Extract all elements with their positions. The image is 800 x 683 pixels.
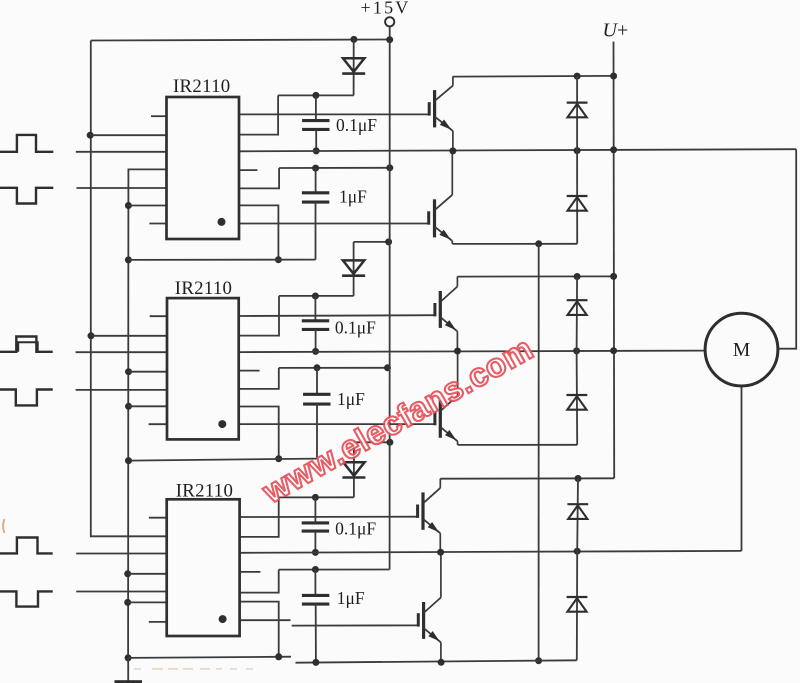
capacitor C1 stem bottom [315, 129, 317, 151]
svg-text:0.1μF: 0.1μF [335, 318, 376, 338]
wire input HIN-B to chip2 [76, 351, 167, 353]
wire emitter line A [452, 243, 577, 245]
junction dot phase B Q junction [454, 348, 461, 355]
capacitor C2 stem top [315, 168, 317, 193]
junction dot collector A rail [610, 73, 617, 80]
ground [115, 658, 143, 683]
svg-text:+15V: +15V [361, 0, 411, 18]
transistor Q4 [435, 351, 458, 445]
junction dot C5 top [312, 494, 319, 501]
op-amp U1 IR2110 chip1 [167, 97, 240, 239]
chip3 pin marker dot [219, 615, 227, 623]
junction dot COM bus chip3 pin4 [124, 570, 131, 577]
wire chip3 LIN-drive to Q6 gate part2 [292, 624, 419, 626]
junction dot phase C diode column [574, 548, 581, 555]
capacitor C6 1uF [302, 594, 329, 597]
capacitor C4 stem bottom [316, 404, 318, 459]
wire chip1 VCC line to rail [279, 167, 390, 169]
wire chip1 LO pin corner [239, 205, 278, 259]
transistor Q1 [429, 76, 453, 150]
wire emitter line B [458, 444, 578, 446]
diode VD1 [343, 58, 364, 72]
wire COM to chip1 [128, 205, 166, 207]
wire phase C up to motor [741, 386, 743, 551]
wire chip3 VCC line to rail corner [279, 569, 390, 571]
wire COM to chip3 pin4 [128, 573, 167, 575]
wire phase line A [239, 149, 796, 151]
wire +15V rail vertical [389, 40, 391, 570]
transistor Q6 [418, 552, 441, 662]
wire input LIN-B to chip2 [76, 389, 167, 391]
wire chip2 pin stub right VS2 [239, 370, 260, 372]
input pulse waveform LIN-B [0, 390, 53, 406]
wire VD9 stem [576, 551, 578, 660]
junction dot VDD bus chip1 [87, 132, 94, 139]
junction dot +15V terminal [386, 36, 393, 43]
svg-text:1μF: 1μF [337, 389, 365, 409]
junction dot collector B rail [610, 273, 617, 280]
transistor Q5 [418, 479, 441, 553]
junction dot rail VD2 feed [385, 238, 392, 245]
junction dot subline B [275, 455, 282, 462]
junction dot C1 top [312, 92, 319, 99]
svg-text:IR2110: IR2110 [176, 480, 233, 501]
wire chip3 HO to Q5 gate [240, 516, 418, 518]
junction dot COM bus chip3 pin6 [124, 599, 131, 606]
wire U+ rail [613, 42, 616, 479]
junction dot C3 bottom on VS-B [312, 348, 319, 355]
wire VB link A [278, 94, 354, 96]
junction dot emitter return bottom [535, 657, 542, 664]
diode VD3 [343, 462, 364, 476]
wire bootstrap diode VD3 leads [353, 442, 355, 497]
faint orange watermark remnant dashes [134, 668, 253, 670]
junction dot bottom bus Q6 emitter [438, 659, 445, 666]
capacitor C4 1uF [303, 393, 330, 396]
wire input LIN-C to chip3 [76, 591, 167, 593]
wire collector line C [440, 477, 614, 479]
junction dot C3 top [312, 293, 319, 300]
wire emitter return vertical [538, 244, 540, 661]
junction dot diode D1 top [350, 36, 357, 43]
wire VD4 stem [576, 76, 578, 151]
wire VB link B [279, 295, 354, 297]
op-amp U2 IR2110 chip2 [167, 298, 239, 439]
chip2 pin marker dot [218, 420, 226, 428]
wire chip1 HO to Q1 gate [239, 113, 429, 115]
chip1 pin marker dot [218, 218, 226, 226]
wire input HIN-C to chip3 [76, 553, 167, 555]
junction dot phase A diode column [574, 147, 581, 154]
wire chip3 LIN-drive to Q6 gate part1 [240, 619, 291, 621]
wire COM to chip2 pin6 [129, 405, 168, 407]
wire chip1 pin stub right VS2 [239, 169, 257, 171]
wire input LIN-A to chip1 [77, 187, 167, 189]
svg-text:1μF: 1μF [339, 186, 367, 206]
wire chip1 pin stub left bottom [149, 223, 166, 225]
svg-text:1μF: 1μF [337, 588, 365, 608]
capacitor C3 stem top [314, 296, 316, 321]
svg-text:IR2110: IR2110 [175, 278, 232, 299]
wire input HIN-A to chip1 [76, 151, 167, 153]
wire +15V feed line [91, 40, 390, 41]
input pulse waveform LIN-C [0, 591, 53, 606]
input pulse waveform HIN-B [0, 337, 53, 352]
wire phase A right edge down [778, 149, 796, 349]
capacitor C1 stem top [315, 95, 317, 120]
wire chip2 VCC pin corner [239, 368, 279, 389]
input pulse waveform HIN-A [0, 135, 53, 152]
junction dot phase B diode column [573, 347, 580, 354]
wire subline B [129, 459, 318, 461]
motor M [705, 313, 778, 386]
wire chip1 VCC pin corner [239, 168, 279, 188]
diode VD2 [343, 260, 364, 274]
wire phase line B [239, 351, 705, 353]
wire chip2 VB pin corner [239, 296, 279, 336]
capacitor C5 stem top [314, 497, 316, 523]
wire VDD to chip2 [91, 335, 167, 337]
wire VD2 feed from rail [354, 241, 389, 243]
wire chip2 LIN-drive to Q4 gate [239, 423, 435, 425]
wire VD3 feed from rail [354, 441, 390, 443]
junction dot collector B diode [574, 273, 581, 280]
diode VD9 [567, 596, 588, 598]
wire VD5 stem [576, 151, 578, 244]
junction dot COM bus subline B [125, 457, 132, 464]
transistor Q2 [429, 151, 453, 244]
capacitor C5 0.1uF [302, 521, 329, 524]
wire chip2 HO to Q3 gate [239, 314, 435, 317]
junction dot phase B rail crossing [610, 347, 617, 354]
wire chip2 VCC line to rail [279, 367, 388, 369]
wire left VDD bus [91, 41, 167, 537]
junction dot phase A Q junction [449, 147, 456, 154]
junction dot VDD bus chip2 [88, 332, 95, 339]
junction dot subline A [275, 256, 282, 263]
wire collector line B [457, 275, 613, 277]
junction dot rail VCC-A [386, 164, 393, 171]
watermark www.elecfans.com [255, 329, 539, 510]
junction dot COM bus chip1 pin [125, 202, 132, 209]
junction dot C6 top [312, 566, 319, 573]
junction dot rail VD3 feed [386, 439, 393, 446]
junction dot rail VCC-B [384, 364, 391, 371]
wire chip1 VB pin corner [239, 95, 278, 134]
transistor Q3 [435, 277, 458, 351]
capacitor C6 stem top [314, 570, 316, 596]
wire chip2 LO pin corner [239, 407, 279, 459]
wire COM to chip3 pin6 [128, 601, 167, 603]
wire bottom bus segment 1 [128, 657, 291, 658]
diode VD5 [567, 195, 588, 197]
capacitor C6 stem bottom [315, 604, 317, 662]
svg-text:IR2110: IR2110 [173, 76, 230, 97]
input pulse waveform LIN-A [0, 188, 53, 204]
junction dot subline C [275, 653, 282, 660]
wire phase line C [240, 551, 742, 553]
wire subline A [128, 259, 315, 261]
capacitor C1 0.1uF [302, 119, 329, 122]
wire bootstrap diode VD1 leads [353, 39, 355, 95]
input pulse waveform HIN-B ghost stroke [18, 342, 38, 352]
junction dot bottom bus LO-C [275, 653, 282, 660]
wire VD6 stem [576, 277, 579, 351]
junction dot emitter A return [535, 240, 542, 247]
wire bootstrap diode VD2 leads [353, 242, 355, 296]
capacitor C5 stem bottom [314, 531, 316, 552]
junction dot bottom bus C6 [312, 659, 319, 666]
junction dot C4 top [314, 364, 321, 371]
diode VD4 [567, 101, 588, 103]
wire chip3 VCC pin corner [240, 570, 279, 593]
junction dot C2 top [312, 165, 319, 172]
capacitor C4 stem top [316, 368, 318, 395]
power terminal +15V [385, 17, 394, 39]
wire chip3 LO pin corner [240, 602, 279, 657]
diode VD7 [567, 394, 588, 396]
junction dot COM bus chip2 pin4 [125, 368, 132, 375]
junction dot C5 bottom on VS-C [312, 549, 319, 556]
diode VD8 [567, 503, 588, 505]
svg-text:0.1μF: 0.1μF [336, 115, 377, 135]
capacitor C3 0.1uF [302, 319, 329, 322]
capacitor C2 stem bottom [315, 202, 317, 260]
wire VD8 stem [576, 479, 579, 552]
capacitor C3 stem bottom [315, 329, 317, 351]
wire chip3 pin stub right VS2 [240, 571, 261, 573]
input pulse waveform HIN-C [0, 538, 53, 554]
wire chip1 pin stub left top [151, 115, 167, 117]
diode VD6 [567, 299, 588, 301]
junction dot C1 bottom on VS-A [313, 147, 320, 154]
wire chip2 pin stub left bottom [149, 423, 167, 425]
faint orange mark left edge [3, 519, 5, 533]
junction dot collector C diode [575, 475, 582, 482]
svg-text:0.1μF: 0.1μF [335, 519, 376, 539]
wire chip3 pin stub left top [149, 517, 167, 519]
op-amp U3 IR2110 chip3 [167, 499, 240, 636]
svg-text:U+: U+ [603, 20, 629, 42]
wire bottom bus segment 2 [296, 660, 577, 662]
junction dot phase A rail crossing [610, 146, 617, 153]
wire VB link C [279, 496, 354, 498]
junction dot COM bus chip2 pin6 [125, 403, 132, 410]
capacitor C2 1uF [302, 191, 329, 194]
junction dot collector A diode [574, 73, 581, 80]
wire chip3 VB pin corner [240, 497, 279, 537]
wire COM to chip2 pin4 [129, 371, 168, 373]
wire chip2 pin stub left top [150, 315, 167, 317]
wire collector line A [453, 75, 614, 78]
wire VDD to chip1 [90, 134, 166, 136]
junction dot COM bus ground node [125, 654, 132, 661]
junction dot phase C Q junction [437, 549, 444, 556]
wire chip1 LIN-drive to Q2 gate [239, 223, 429, 225]
svg-text:M: M [733, 340, 750, 361]
wire chip3 pin stub left bottom [149, 621, 167, 623]
wire VD7 stem [576, 351, 579, 445]
wire left COM bus [128, 169, 166, 658]
junction dot COM bus subline A [125, 256, 132, 263]
